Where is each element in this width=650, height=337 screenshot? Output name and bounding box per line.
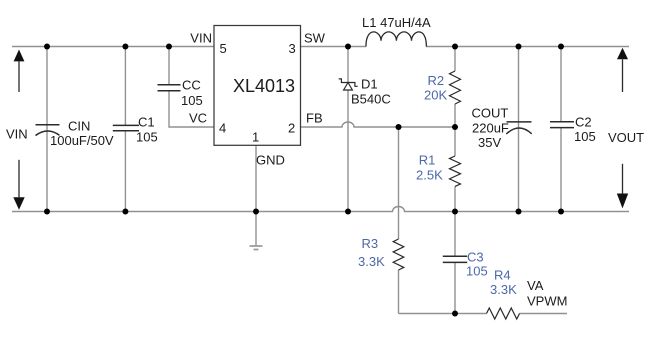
node bottom rail junction at COUT: [516, 209, 522, 215]
wire R2 top: [454, 47, 456, 72]
node sub-rail junction at C3: [452, 311, 458, 317]
arrow VOUT down: [617, 164, 628, 209]
wire top rail middle segment (SW to L1): [301, 46, 367, 48]
svg-text:VIN: VIN: [6, 127, 28, 142]
svg-text:R1: R1: [419, 153, 436, 168]
svg-text:FB: FB: [306, 111, 323, 126]
svg-text:R2: R2: [428, 73, 445, 88]
svg-text:VA: VA: [527, 278, 544, 293]
node top rail junction at COUT: [516, 44, 522, 50]
diode D1 triangle: [344, 83, 353, 91]
svg-text:220uF: 220uF: [472, 120, 509, 135]
node top rail junction at C2: [558, 44, 564, 50]
svg-text:20K: 20K: [424, 87, 447, 102]
op-amp U1 XL4013 box: [214, 26, 301, 146]
resistor R4 zigzag (horizontal): [487, 308, 520, 319]
svg-text:CIN: CIN: [68, 119, 90, 134]
wire top rail left segment: [12, 46, 214, 48]
wire C1 column lower: [124, 131, 126, 212]
node FB junction at R3: [396, 124, 402, 130]
wire C2 column lower: [560, 128, 562, 212]
wire R2 bottom to FB node: [454, 104, 456, 127]
wire top rail right segment (L1 to right edge): [426, 46, 629, 48]
svg-text:5: 5: [220, 41, 227, 56]
wire D1 cathode to SW node: [347, 47, 349, 83]
svg-text:100uF/50V: 100uF/50V: [50, 133, 114, 148]
svg-text:XL4013: XL4013: [233, 76, 295, 96]
wire R3 bottom to feedback sub-wire: [398, 270, 400, 314]
wire sub-rail R3 to R4: [399, 313, 487, 315]
node SW junction at D1: [345, 44, 351, 50]
wire R4 to VPWM output: [520, 313, 568, 315]
svg-text:105: 105: [136, 130, 158, 145]
svg-text:R4: R4: [494, 268, 511, 283]
svg-text:C2: C2: [575, 115, 592, 130]
ground symbol: [250, 246, 263, 250]
svg-text:3.3K: 3.3K: [358, 254, 385, 269]
svg-text:3: 3: [289, 41, 296, 56]
svg-text:4: 4: [219, 121, 226, 136]
wire C2 column upper: [560, 47, 562, 122]
node bottom rail junction at C2: [558, 209, 564, 215]
capacitor COUT (polarized) plates: [506, 122, 531, 134]
resistor R3 zigzag: [393, 239, 404, 270]
wire C3 bottom: [454, 262, 456, 313]
node top rail junction at CIN: [44, 44, 50, 50]
node top rail junction at C1: [122, 44, 128, 50]
svg-text:105: 105: [574, 129, 596, 144]
wire bottom ground rail with hop over R3 wire: [12, 207, 629, 212]
wire CC column upper: [168, 47, 170, 85]
svg-text:L1 47uH/4A: L1 47uH/4A: [362, 15, 431, 30]
svg-text:C3: C3: [467, 250, 484, 265]
node bottom rail junction at R1: [452, 209, 458, 215]
wire R1 bottom to ground rail: [454, 187, 456, 212]
svg-text:105: 105: [466, 264, 488, 279]
svg-text:2: 2: [288, 121, 295, 136]
wire COUT column: [518, 47, 520, 212]
svg-text:C1: C1: [138, 115, 155, 130]
wire C3 top: [454, 212, 456, 257]
svg-text:CC: CC: [182, 78, 201, 93]
capacitor C1 plates: [113, 125, 139, 130]
svg-text:SW: SW: [304, 31, 326, 46]
wire D1 anode to ground rail: [347, 90, 349, 212]
svg-text:R3: R3: [362, 236, 379, 251]
wire C1 column upper: [124, 47, 126, 126]
wire GND pin 1 to ground symbol: [255, 145, 257, 245]
node bottom rail junction at CIN: [44, 209, 50, 215]
node FB junction at R1/R2: [452, 124, 458, 130]
node top rail junction at R2: [452, 44, 458, 50]
diode D1 schottky cathode bar with hooks: [339, 79, 358, 86]
svg-text:1: 1: [252, 129, 259, 144]
wire CIN column: [46, 47, 48, 212]
svg-text:VOUT: VOUT: [608, 130, 644, 145]
svg-text:D1: D1: [361, 77, 378, 92]
svg-text:VPWM: VPWM: [527, 294, 567, 309]
capacitor CC plates: [158, 85, 181, 91]
node top rail junction at CC: [166, 44, 172, 50]
capacitor C2 plates: [550, 122, 574, 128]
svg-text:3.3K: 3.3K: [490, 282, 517, 297]
node bottom rail junction at C1: [122, 209, 128, 215]
svg-text:VC: VC: [189, 111, 207, 126]
arrow VIN down: [13, 160, 24, 210]
node bottom rail junction at GND pin: [253, 209, 259, 215]
svg-text:105: 105: [181, 93, 203, 108]
resistor R1 zigzag: [450, 156, 461, 186]
svg-text:GND: GND: [256, 153, 285, 168]
inductor L1: [366, 32, 426, 47]
svg-text:2.5K: 2.5K: [416, 167, 443, 182]
wire FB line from pin 2 with hop over D1 wire: [301, 122, 456, 127]
arrow VOUT up: [617, 48, 628, 92]
wire R3 column from FB node through rail hop: [398, 127, 400, 239]
wire R1 top: [454, 127, 456, 156]
arrow VIN up: [14, 50, 25, 93]
resistor R2 zigzag: [450, 71, 461, 104]
svg-text:COUT: COUT: [472, 105, 509, 120]
svg-text:B540C: B540C: [351, 92, 391, 107]
capacitor C3 plates: [443, 256, 467, 262]
capacitor CIN (polarized) plates: [36, 125, 60, 136]
wire CC to VC pin: [169, 91, 214, 127]
svg-text:35V: 35V: [478, 135, 501, 150]
node bottom rail junction at D1: [345, 209, 351, 215]
svg-text:VIN: VIN: [190, 31, 212, 46]
